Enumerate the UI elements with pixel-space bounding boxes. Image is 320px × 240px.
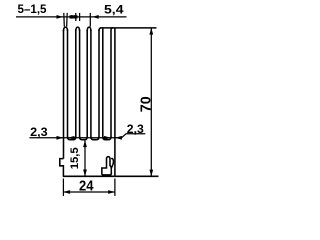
slot S2 rounded bottom — [80, 137, 88, 140]
70-dimension bottom extension line — [115, 175, 159, 177]
arrow of 5,4 leader pointing left — [92, 15, 99, 19]
svg-text:15,5: 15,5 — [69, 147, 81, 169]
svg-text:2,3: 2,3 — [30, 125, 48, 139]
fin F2 left face — [75, 30, 77, 138]
svg-text:5,4: 5,4 — [104, 2, 124, 16]
arrow pair (bowtie) marking fin thickness — [68, 15, 77, 19]
slot S3 rounded bottom — [91, 137, 99, 140]
svg-text:70: 70 — [138, 96, 155, 112]
arrow 15,5 up — [83, 140, 87, 147]
extension tick above F2 left face — [75, 13, 77, 21]
fin F3 cap — [87, 27, 91, 31]
clip channel hook lip — [111, 159, 113, 168]
extension tick above F1 right face — [66, 13, 69, 27]
profile bottom edge — [63, 175, 115, 177]
left wall mounting notch — [60, 159, 64, 177]
fin F4 rounded top-left corner — [99, 28, 101, 31]
arrow 24 left — [63, 190, 70, 194]
bowtie solid middle — [70, 15, 78, 18]
right wall left face with rounded corner — [111, 28, 113, 137]
clip channel cavity (boot-shaped) — [102, 157, 111, 175]
arrow 24 right — [108, 190, 115, 194]
dimension 24 left extension line — [62, 179, 64, 197]
fin F4 left face — [98, 30, 100, 138]
extension tick above F1 left face — [63, 13, 66, 27]
fin F1 cap — [64, 27, 68, 31]
slot S1 rounded bottom — [68, 137, 76, 140]
fin F3 left face — [86, 30, 88, 138]
arrow 2,3 left inner — [68, 136, 75, 140]
arrow 15,5 down — [83, 170, 87, 177]
arrow of 5-1,5 leader pointing right — [57, 15, 64, 19]
top leader line (5-1,5 and 5,4 shared leader) — [16, 16, 127, 18]
fin F2 right face — [79, 30, 81, 138]
arrow 70 down — [149, 170, 153, 177]
fin F1 right face — [67, 30, 69, 138]
fin F3 right face — [90, 30, 92, 138]
slot S4 rounded bottom (closed channel) — [103, 137, 111, 140]
dimension line 24 — [63, 191, 115, 193]
svg-text:24: 24 — [79, 178, 94, 195]
dimension line 15,5 vertical — [84, 140, 86, 176]
extension tick above F3 — [89, 13, 91, 27]
arrow 2,3 right inner — [104, 136, 111, 140]
fin F4 right face — [102, 28, 104, 137]
svg-text:2,3: 2,3 — [127, 122, 144, 136]
right wall outer face — [114, 28, 116, 176]
fin F2 cap — [76, 27, 80, 31]
dimension 24 right extension line — [114, 179, 116, 197]
arrow 2,3 right outer — [115, 136, 122, 140]
arrow 2,3 left outer — [57, 136, 64, 140]
svg-text:5–1,5: 5–1,5 — [18, 2, 47, 16]
profile top edge and 70-dimension top extension line — [100, 27, 156, 29]
dimension line 70 vertical — [150, 28, 152, 176]
arrow 70 up — [149, 28, 153, 35]
dimension line 2,3 left and right — [30, 134, 146, 138]
extension tick above F2 right face — [79, 13, 81, 21]
fin F1 left face (outer left wall) — [63, 30, 65, 159]
